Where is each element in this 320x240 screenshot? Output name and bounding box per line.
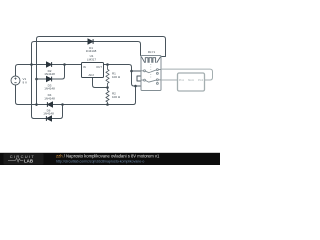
svg-text:zzh / Naprosto komplikovane ov: zzh / Naprosto komplikovane ovladani s 8…	[56, 154, 160, 159]
svg-text:100 Ω: 100 Ω	[112, 95, 121, 99]
relay mechanical dashed link	[150, 64, 152, 78]
junction V1+ / left rail	[30, 63, 33, 66]
relay switch 1	[144, 70, 146, 72]
op-amp U1 regulator LM317 box	[82, 63, 104, 78]
svg-text:9 V: 9 V	[23, 81, 28, 85]
svg-text:RLY1: RLY1	[148, 50, 156, 54]
relay pin stubs	[141, 70, 161, 81]
junction D6 branch / bottom rail	[61, 103, 64, 106]
junction OUT wire / R1 top	[106, 63, 109, 66]
diode D4 (points left)	[47, 102, 52, 107]
wire relay pin C1	[132, 70, 142, 72]
relay switch 2	[144, 79, 146, 81]
junction R2 bottom / bottom rail	[106, 103, 109, 106]
wire relay to motor Pin1	[161, 79, 178, 81]
svg-text:LAB: LAB	[24, 158, 33, 163]
diode D6 (points left)	[46, 116, 51, 121]
svg-text:Pin1: Pin1	[179, 78, 185, 82]
wire net inner rail through D1	[32, 42, 141, 119]
component labels	[43, 46, 155, 116]
svg-text:OUT: OUT	[96, 65, 102, 69]
wire relay jog pins	[137, 76, 141, 81]
diode D1	[88, 39, 93, 44]
wire relay NO1 loop to motor Pin2	[161, 69, 213, 80]
svg-text:1N4148: 1N4148	[44, 72, 55, 76]
wire V1+ to regulator IN	[16, 65, 82, 76]
svg-text:1N4148: 1N4148	[44, 96, 55, 100]
wire net outer top rail	[37, 37, 166, 106]
svg-text:LM317: LM317	[87, 58, 97, 62]
junction relay C1 branch	[130, 70, 133, 73]
wire bottom rail	[16, 85, 136, 104]
CircuitLab logo	[4, 153, 44, 164]
svg-text:Pin2: Pin2	[198, 78, 204, 82]
svg-text:1N4148: 1N4148	[86, 49, 97, 53]
svg-text:1N4148: 1N4148	[44, 87, 55, 91]
junction ADJ rail / R1-R2	[106, 86, 109, 89]
svg-text:1N4148: 1N4148	[43, 112, 54, 116]
relay coil	[142, 57, 161, 63]
diode D3	[47, 77, 52, 82]
motor block	[178, 73, 205, 91]
svg-text:http://circuitlab.com/c/zqm2dc: http://circuitlab.com/c/zqm2dc8/naprosto…	[56, 160, 144, 164]
junction D3 branch / IN wire	[63, 63, 66, 66]
relay RLY1	[141, 56, 161, 91]
voltage source V1	[11, 76, 20, 85]
resistor R1	[106, 65, 109, 88]
svg-text:Mot1: Mot1	[188, 78, 194, 82]
resistor R2	[106, 88, 109, 105]
wire D6 branch	[34, 105, 63, 119]
wire ADJ rail	[93, 78, 108, 88]
junction inner rail / bottom rail	[35, 103, 38, 106]
svg-text:100 Ω: 100 Ω	[112, 75, 121, 79]
wire D3 branch	[37, 65, 65, 80]
junction D3 branch / inner rail	[35, 78, 38, 81]
footer bar	[0, 153, 220, 165]
svg-text:ADJ: ADJ	[89, 73, 95, 77]
diode D2	[47, 62, 52, 67]
junction relay pin / bottom rail riser	[134, 85, 137, 88]
wire OUT rail to relay	[104, 65, 142, 87]
svg-text:IN: IN	[83, 65, 86, 69]
